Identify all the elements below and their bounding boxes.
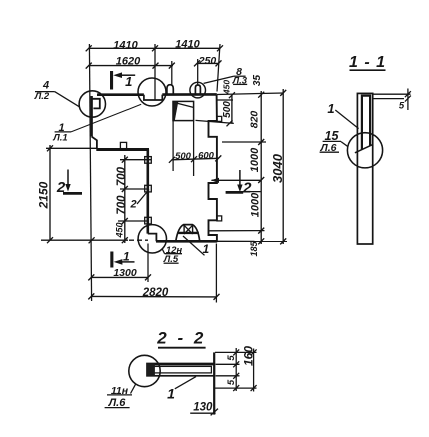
svg-text:1000: 1000 bbox=[249, 147, 261, 172]
castellated right wall edge bbox=[209, 95, 217, 242]
svg-text:1300: 1300 bbox=[113, 267, 137, 279]
section 2-2 title underline bbox=[158, 347, 206, 349]
leader Л.2 bbox=[35, 91, 55, 93]
wire extension x148 down bbox=[147, 244, 149, 283]
anchor square on interior wall 3 bbox=[145, 217, 152, 224]
wall bottom edge bbox=[156, 240, 217, 243]
detail circle Л.1 bbox=[138, 78, 166, 106]
wire extension y142 bbox=[222, 141, 266, 143]
svg-text:700: 700 bbox=[116, 195, 128, 215]
svg-text:5: 5 bbox=[399, 101, 405, 112]
embedded panel detail bbox=[173, 101, 194, 120]
right dimension chain B 3040 bbox=[280, 89, 286, 244]
wire extension below panel right bbox=[193, 121, 195, 176]
svg-text:500: 500 bbox=[175, 151, 192, 162]
svg-text:Л.2: Л.2 bbox=[34, 91, 50, 102]
wire baseline extended right bbox=[217, 240, 287, 242]
wire extension x216.5 down bbox=[215, 244, 217, 303]
wire extension y191.6 bbox=[226, 191, 261, 193]
leader 11н Л.6 (2-2) bbox=[107, 394, 132, 396]
section flag 2 right bbox=[239, 170, 241, 190]
svg-text:2: 2 bbox=[56, 179, 66, 196]
wire extension below panel left bbox=[172, 121, 174, 171]
anchor hat symbol bbox=[176, 225, 200, 241]
svg-text:5: 5 bbox=[226, 355, 237, 361]
corner notch detail in circle 1 bbox=[92, 99, 100, 109]
interior wall vertical bbox=[147, 150, 150, 234]
svg-text:4: 4 bbox=[42, 80, 49, 92]
svg-text:2: 2 bbox=[242, 179, 252, 196]
section flag 2 left bbox=[67, 170, 69, 190]
svg-text:5: 5 bbox=[226, 379, 237, 385]
slot in top edge at circle 3 bbox=[195, 85, 200, 94]
leader Л.1 bbox=[55, 131, 71, 133]
left dimension chain 2150 bbox=[46, 145, 97, 243]
svg-text:600: 600 bbox=[198, 150, 215, 161]
dimension 5 (1-1) bbox=[373, 89, 411, 111]
svg-text:2150: 2150 bbox=[36, 181, 50, 209]
wire panel bottom extension bbox=[196, 120, 234, 123]
svg-text:1: 1 bbox=[167, 385, 175, 401]
dimension 130 underline (2-2) bbox=[190, 412, 215, 414]
right dimension chain A bbox=[258, 91, 264, 244]
section 2-2 plate outline bbox=[147, 364, 214, 376]
svg-text:1620: 1620 bbox=[116, 55, 141, 67]
svg-text:35: 35 bbox=[252, 75, 263, 87]
baseline dash line bottom bbox=[41, 239, 128, 241]
interior wall horizontal bbox=[96, 148, 149, 151]
svg-text:2: 2 bbox=[129, 199, 136, 211]
section flag 1 top bbox=[110, 71, 122, 90]
detail circle Л.3 bbox=[190, 82, 206, 98]
svg-text:1: 1 bbox=[125, 74, 132, 89]
section 1-1 column outline bbox=[357, 93, 372, 244]
svg-text:1: 1 bbox=[202, 242, 209, 256]
svg-text:Л.3: Л.3 bbox=[232, 76, 248, 87]
wire top edge extended right bbox=[217, 93, 283, 95]
svg-text:450: 450 bbox=[114, 222, 124, 238]
leader Л.3 bbox=[234, 75, 246, 77]
svg-text:820: 820 bbox=[248, 111, 260, 129]
svg-text:250: 250 bbox=[198, 55, 217, 67]
section 1-1 wedge diagonal bbox=[355, 145, 373, 153]
svg-text:130: 130 bbox=[193, 402, 213, 414]
notch in top edge at circle 2 bbox=[144, 95, 162, 100]
svg-text:500: 500 bbox=[222, 101, 233, 118]
svg-text:700: 700 bbox=[116, 166, 128, 186]
dimension 1620 line bbox=[86, 63, 175, 69]
detail circle Л.6 (2-2) bbox=[129, 355, 160, 386]
dimension 500/600 line bbox=[169, 155, 221, 162]
detail circle Л.2 bbox=[79, 91, 105, 117]
detail circle Л.5 bbox=[138, 225, 166, 253]
svg-text:Л.6: Л.6 bbox=[108, 397, 127, 409]
wire extension y180 with arrow bbox=[212, 179, 262, 181]
svg-text:160: 160 bbox=[241, 346, 255, 366]
dimension 250 line bbox=[194, 60, 222, 66]
section 2-2 filled left end bbox=[147, 364, 155, 376]
wall left edge step bbox=[92, 137, 97, 149]
dome lug on top edge bbox=[167, 85, 173, 95]
svg-text:1: 1 bbox=[123, 250, 130, 264]
wire extension x155 bbox=[154, 44, 156, 100]
section 2-2 inner plate lines bbox=[153, 366, 212, 373]
leader item 2 wall bbox=[137, 190, 149, 205]
leader item 1 hat bbox=[183, 236, 205, 255]
wall left edge bbox=[91, 96, 93, 137]
wire extension x220 to wall corner bbox=[217, 44, 220, 92]
wire extension y230.6 bbox=[210, 230, 265, 232]
anchor square on horizontal wall bbox=[120, 142, 126, 148]
dimension 1410+1410 line bbox=[86, 45, 223, 51]
svg-text:Л.5: Л.5 bbox=[163, 254, 179, 265]
left dimension chain 700/700/450 bbox=[118, 155, 152, 243]
dimension 5/5/160 (2-2) bbox=[215, 348, 257, 392]
svg-text:1: 1 bbox=[327, 101, 334, 116]
leader 15 Л.6 (1-1) bbox=[323, 140, 341, 142]
svg-text:450: 450 bbox=[222, 80, 232, 95]
section 1-1 inner slot bbox=[362, 96, 370, 150]
svg-text:11н: 11н bbox=[111, 385, 129, 397]
wall corner step in circle 4 bbox=[148, 234, 157, 242]
svg-text:2820: 2820 bbox=[142, 287, 169, 299]
svg-text:1410: 1410 bbox=[113, 39, 138, 51]
wire left extension line x90 bbox=[89, 44, 91, 301]
wire extension x172 bbox=[171, 61, 173, 85]
wall top edge (plan) bbox=[97, 93, 144, 96]
section 1-1 title bbox=[350, 69, 386, 71]
anchor square on right edge top bbox=[217, 116, 222, 121]
svg-text:Л.1: Л.1 bbox=[52, 132, 67, 143]
section flag 1 bottom bbox=[110, 252, 113, 268]
svg-text:2 - 2: 2 - 2 bbox=[156, 329, 206, 348]
svg-text:1 - 1: 1 - 1 bbox=[349, 54, 386, 71]
anchor square on interior wall 2 bbox=[145, 185, 152, 192]
wire extension x198 bbox=[197, 59, 199, 85]
dimension 2820 line bbox=[88, 293, 219, 300]
leader 1 (1-1) bbox=[335, 110, 358, 129]
leader 1 (2-2) bbox=[175, 377, 196, 389]
anchor square on interior wall 1 bbox=[145, 157, 152, 164]
svg-text:1410: 1410 bbox=[175, 39, 200, 51]
leader Л.5 bbox=[165, 253, 182, 255]
dimension 500 vertical bbox=[229, 92, 235, 123]
svg-text:Л.6: Л.6 bbox=[320, 142, 337, 154]
svg-text:185: 185 bbox=[249, 241, 259, 257]
wire inner line below corner bbox=[217, 99, 233, 101]
anchor square on right edge bottom bbox=[217, 216, 222, 221]
section 2-2 anchor rod bbox=[213, 352, 215, 414]
svg-text:3040: 3040 bbox=[270, 153, 285, 183]
dimension 1300 line bbox=[88, 274, 151, 280]
detail circle Л.6 (1-1) bbox=[347, 133, 382, 168]
